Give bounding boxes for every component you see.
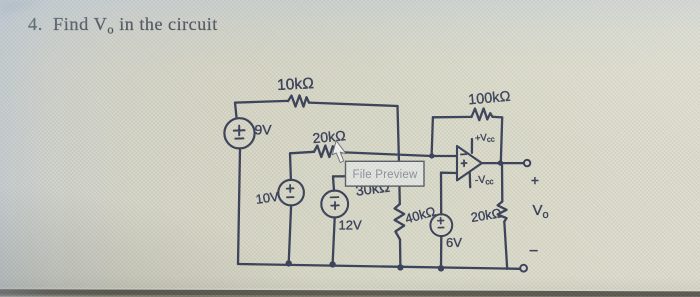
wire bottom rail: [238, 264, 520, 269]
V4 plus sign: [438, 218, 444, 224]
photo bottom edge highlight: [0, 287, 700, 297]
svg-text:File Preview: File Preview: [352, 169, 418, 181]
wire 10k to right corner: [309, 103, 398, 106]
junction node rail/40k: [397, 264, 403, 270]
photo top-left corner shadow: [0, 0, 46, 17]
wire 20k load to bottom rail: [504, 222, 507, 269]
resistor 100k (feedback): [472, 108, 493, 120]
svg-text:+: +: [531, 173, 539, 188]
terminal lower output (open circle): [520, 265, 527, 272]
svg-text:4. Find Vo in the circuit: 4. Find Vo in the circuit: [28, 14, 218, 37]
voltage source V1 9V circle: [224, 118, 254, 148]
resistor 20k (middle): [314, 146, 336, 158]
svg-text:9V: 9V: [255, 122, 273, 138]
svg-text:12V: 12V: [339, 218, 362, 233]
wire 10V branch lower: [289, 205, 291, 263]
wire 6V branch lower: [440, 236, 443, 268]
terminal upper output (open circle): [524, 160, 530, 166]
op-amp U1 triangle: [457, 146, 482, 180]
U1 -Vcc supply stub: [469, 172, 472, 187]
wire 20k to inverting node: [336, 152, 432, 156]
junction node at op-amp output: [498, 160, 503, 165]
junction node at inverting input: [429, 153, 434, 158]
wire vertical mid (top wire down to 40k, passes behind preview box): [398, 106, 400, 204]
resistor 10k (top): [288, 95, 309, 106]
V4 minus sign: [438, 227, 443, 229]
U1 non-inverting pin plus sign: [462, 160, 467, 166]
voltage source V3 12V circle: [321, 191, 348, 218]
wire feedback top left: [433, 116, 472, 119]
svg-text:20kΩ: 20kΩ: [470, 205, 503, 225]
wire 30k row (hidden behind preview box): [333, 171, 400, 182]
wire feedback top right: [493, 116, 503, 119]
V3 plus sign (bottom): [331, 202, 339, 209]
wire 6V branch upper (plus input down to 6V): [440, 173, 443, 215]
junction node rail/6V: [438, 265, 444, 271]
wire op-amp output: [482, 162, 524, 164]
resistor 40k (vertical): [395, 204, 405, 240]
wire 20k row left (bend to 20k): [290, 152, 314, 154]
wire 10V branch upper: [289, 153, 292, 180]
svg-text:10V: 10V: [255, 189, 280, 207]
svg-text:+Vcc: +Vcc: [475, 132, 496, 145]
V2 plus sign: [287, 185, 294, 192]
wire 40k to bottom rail: [399, 240, 402, 268]
V1 plus sign: [234, 126, 245, 136]
svg-text:Vo: Vo: [533, 202, 549, 221]
V2 minus sign: [287, 196, 294, 198]
wire top-left horizontal (9V top to 10k): [235, 101, 288, 103]
svg-text:100kΩ: 100kΩ: [468, 89, 512, 109]
U1 +Vcc supply stub: [471, 139, 473, 153]
svg-text:−: −: [529, 243, 538, 260]
mouse cursor arrow: [332, 141, 346, 163]
svg-text:20kΩ: 20kΩ: [312, 127, 347, 146]
svg-text:-Vcc: -Vcc: [475, 174, 494, 187]
File Preview tooltip box: [346, 161, 425, 186]
wire left vertical lower (9V to bottom rail): [238, 149, 240, 264]
voltage source V2 10V circle: [278, 180, 304, 206]
wire 12V/30k branch corner: [333, 176, 334, 190]
svg-text:6V: 6V: [446, 235, 462, 250]
wire inverting input: [432, 155, 457, 157]
svg-text:40kΩ: 40kΩ: [403, 203, 437, 226]
V1 minus sign: [235, 137, 243, 139]
wire output down to 20k load: [501, 163, 504, 201]
wire 12V branch lower: [333, 218, 335, 265]
U1 inverting pin minus sign: [461, 153, 466, 155]
wire left vertical upper (corner to 9V source): [235, 103, 237, 119]
V3 minus sign (top): [331, 196, 339, 198]
voltage source V4 6V circle: [430, 214, 452, 236]
junction node rail/12V: [329, 261, 335, 267]
svg-text:10kΩ: 10kΩ: [277, 75, 315, 94]
photo bottom dark edge band: [0, 289, 700, 297]
resistor 20k (load, vertical): [498, 202, 507, 222]
wire non-inverting input: [441, 172, 457, 175]
wire feedback right vertical: [501, 117, 502, 162]
junction node rail/10V: [286, 260, 292, 266]
wire feedback left vertical: [432, 117, 433, 156]
